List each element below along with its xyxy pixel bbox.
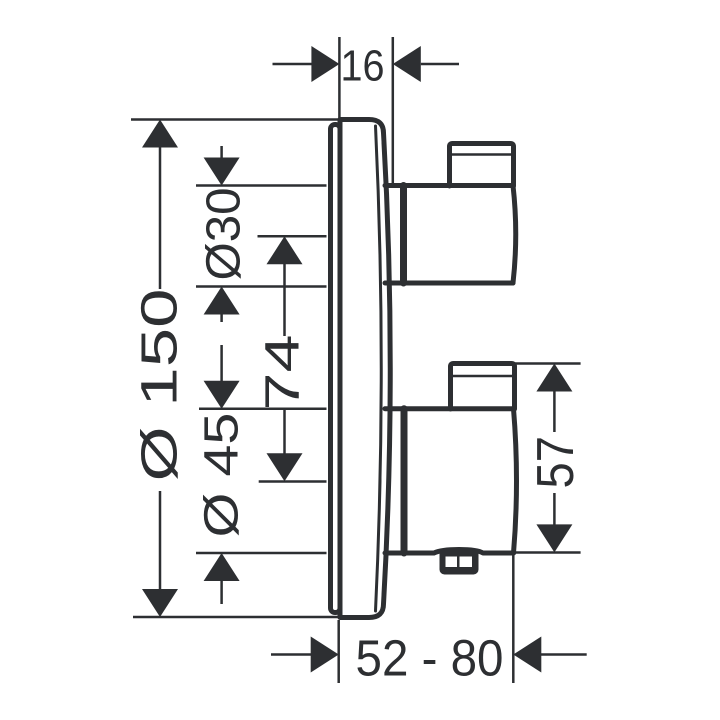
escutcheon plate (side view): [340, 120, 390, 618]
ext line 57 top: [515, 362, 581, 365]
ext line C: [258, 235, 327, 238]
dimension graphics: [131, 37, 587, 683]
dim 16 shafts: [271, 63, 274, 66]
svg-text:57: 57: [527, 436, 585, 489]
dim 30 shafts: [220, 146, 223, 158]
arrow 30 down (top): [204, 158, 240, 186]
upper handle body top edge: [385, 183, 513, 188]
upper handle body right edge: [513, 186, 516, 284]
arrow 16 right: [311, 46, 339, 82]
dim 150 shafts: [159, 147, 162, 289]
lower handle lever: [451, 364, 515, 410]
bottom tab of lower handle: [440, 549, 479, 575]
ext line F: [259, 480, 327, 483]
wall flange behind plate: [331, 125, 341, 613]
arrow 57 up: [536, 364, 572, 392]
upper handle body bottom edge: [385, 281, 513, 286]
dim 57 shafts: [553, 391, 556, 432]
arrow 57 down: [536, 524, 572, 552]
arrow 74 up: [267, 236, 303, 264]
ext line B: [196, 184, 327, 187]
ext line E: [199, 408, 327, 411]
lower handle body top edge: [385, 406, 514, 411]
arrow 52-80 right: [311, 637, 339, 673]
plate front face inner line: [376, 126, 382, 611]
ext line D: [196, 285, 327, 288]
dim 74 shafts: [283, 264, 286, 336]
ext line H bottom of plate: [133, 616, 339, 619]
arrow 30 up (bottom): [204, 287, 240, 315]
arrow 45 down (top): [204, 381, 240, 409]
arrow 45 up (bottom): [204, 553, 240, 581]
svg-text:Ø 45: Ø 45: [196, 413, 249, 538]
arrow 16 left: [393, 46, 421, 82]
svg-text:Ø30: Ø30: [198, 188, 251, 281]
dim 52-80 shafts: [271, 653, 311, 656]
ext line 52-80 left: [337, 620, 340, 683]
lower lever inner line: [453, 375, 512, 378]
lower handle body bottom edge: [385, 550, 514, 554]
lower handle body left edge: [401, 409, 408, 553]
svg-text:52 - 80: 52 - 80: [356, 630, 504, 687]
arrow 52-80 left: [513, 637, 541, 673]
ext line G: [196, 552, 327, 555]
ext line 57 bottom: [515, 551, 581, 554]
upper handle body left edge: [400, 186, 407, 284]
dimension texts: [131, 41, 586, 686]
svg-text:16: 16: [341, 41, 385, 90]
ext line A top of plate: [131, 118, 339, 121]
ext line 16 left: [338, 37, 341, 120]
ext line 52-80 right: [512, 555, 515, 683]
lower handle body right edge: [514, 409, 517, 553]
upper handle lever: [450, 144, 514, 187]
svg-text:Ø 150: Ø 150: [131, 289, 188, 482]
ext line 16 right: [392, 37, 395, 186]
svg-text:74: 74: [257, 335, 310, 411]
arrow 150 up: [142, 120, 178, 148]
upper lever inner line: [452, 153, 511, 156]
arrow 150 down: [142, 589, 178, 617]
arrow 74 down: [267, 453, 303, 481]
dim 45 shafts: [220, 345, 223, 382]
